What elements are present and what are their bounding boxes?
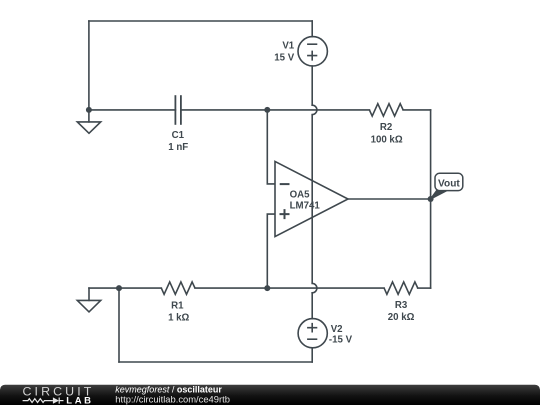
node junction dot inverting branch bbox=[264, 107, 270, 113]
resistor R2 bbox=[369, 104, 403, 116]
svg-text:Vout: Vout bbox=[438, 178, 460, 189]
wire to V2 bbox=[311, 293, 313, 319]
wire bottom main left bbox=[89, 287, 161, 289]
ground GND2 bottom-left bbox=[77, 300, 100, 312]
wire bottom-left vertical bbox=[118, 288, 120, 362]
svg-text:1 kΩ: 1 kΩ bbox=[168, 313, 189, 324]
svg-text:V2: V2 bbox=[331, 324, 343, 335]
wire V2 bottom stub bbox=[311, 348, 313, 362]
wire C1 right to R2 bbox=[181, 109, 370, 111]
node junction dot left ground bbox=[86, 107, 92, 113]
voltage source V1 bbox=[298, 37, 327, 66]
node junction dot non-inverting branch bbox=[264, 285, 270, 291]
node junction dot Vout bbox=[428, 196, 434, 202]
ground GND1 top-left bbox=[77, 122, 100, 133]
wire R2 right bbox=[403, 109, 431, 111]
wire V1 to hop bbox=[311, 66, 313, 105]
svg-text:OA5: OA5 bbox=[290, 189, 311, 200]
wire R1 to R3 bbox=[195, 287, 384, 289]
wire right rail bbox=[430, 110, 432, 288]
svg-text:1 nF: 1 nF bbox=[168, 142, 188, 153]
wire V1 top stub bbox=[311, 21, 313, 37]
op-amp OA5 bbox=[275, 161, 348, 236]
wire op-amp output bbox=[348, 198, 431, 200]
wire top horizontal bbox=[89, 20, 312, 22]
wire non-inverting input branch bbox=[267, 214, 275, 288]
wire V1 rail through op-amp bbox=[311, 115, 313, 284]
footer bar bbox=[0, 385, 540, 405]
wire hop over C1 net bbox=[312, 105, 317, 114]
node junction dot bottom-left bbox=[116, 285, 122, 291]
wire inverting input branch bbox=[267, 110, 275, 184]
CircuitLab logo wordmark bbox=[23, 384, 95, 398]
CircuitLab logo resistor-diode glyph bbox=[23, 398, 64, 404]
svg-text:R2: R2 bbox=[380, 122, 392, 133]
svg-text:LM741: LM741 bbox=[290, 200, 321, 211]
wire R3 right bbox=[418, 287, 431, 289]
svg-text:R1: R1 bbox=[171, 301, 184, 312]
svg-text:C1: C1 bbox=[172, 130, 185, 141]
capacitor C1 bbox=[175, 95, 181, 125]
wire C1 left bbox=[89, 109, 175, 111]
node Vout flag bbox=[431, 173, 463, 199]
svg-text:V1: V1 bbox=[282, 41, 294, 52]
svg-text:20 kΩ: 20 kΩ bbox=[388, 312, 415, 323]
wire hop over bottom net bbox=[312, 283, 317, 292]
svg-text:R3: R3 bbox=[395, 300, 408, 311]
svg-text:http://circuitlab.com/ce49rtb: http://circuitlab.com/ce49rtb bbox=[115, 393, 230, 404]
wire ground stub top-left bbox=[88, 110, 90, 122]
wire bottom return bbox=[119, 361, 312, 363]
svg-text:15 V: 15 V bbox=[274, 52, 294, 63]
voltage source V2 bbox=[298, 319, 327, 348]
svg-text:-15 V: -15 V bbox=[329, 335, 353, 346]
svg-text:100 kΩ: 100 kΩ bbox=[371, 135, 403, 146]
svg-text:LAB: LAB bbox=[66, 395, 93, 405]
wire ground stub bottom-left bbox=[88, 288, 90, 300]
resistor R3 bbox=[384, 282, 418, 294]
wire left vertical rail bbox=[88, 21, 90, 110]
resistor R1 bbox=[161, 282, 195, 294]
